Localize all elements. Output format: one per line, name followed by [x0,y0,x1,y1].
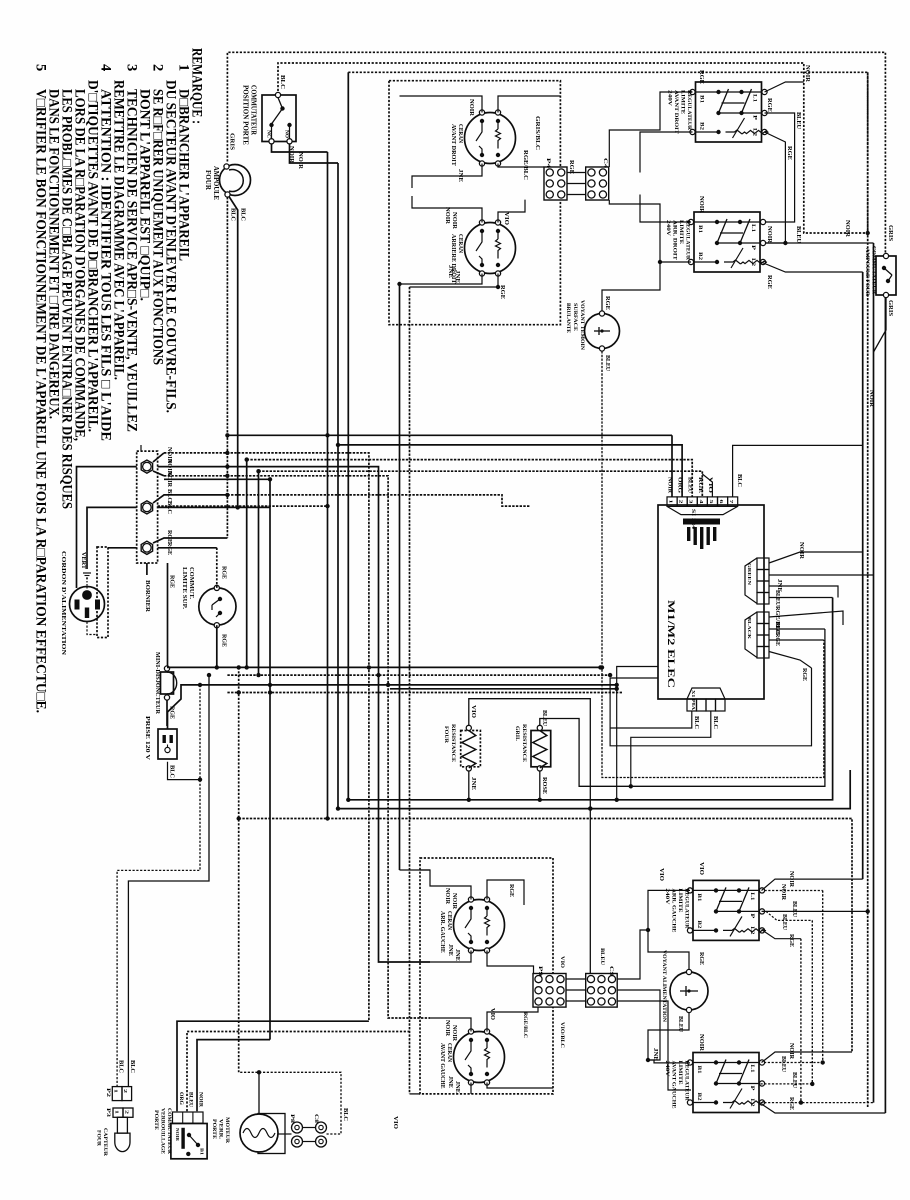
connector C8 [316,1122,327,1133]
wires regulator avant gauche [648,1060,690,1063]
wires regulator avant droit [609,92,692,167]
svg-text:BLC: BLC [169,765,175,778]
svg-text:B1: B1 [697,225,702,234]
svg-text:AMPOULE: AMPOULE [212,166,220,200]
svg-text:RGE: RGE [697,477,703,494]
svg-text:ROSE: ROSE [541,777,547,794]
bus verticals ceran gauche feeds [399,284,401,870]
wires BLC from bornier [153,495,227,503]
svg-text:ARR. GAUCHE: ARR. GAUCHE [671,888,677,932]
svg-text:JNE: JNE [454,270,460,283]
svg-text:RGE: RGE [788,934,794,947]
svg-text:NOIR: NOIR [804,65,810,83]
mini-disjoncteur [164,666,169,671]
svg-text:NO: NO [284,130,290,138]
svg-text:RGE: RGE [698,70,704,84]
svg-text:RESISTANCE: RESISTANCE [521,724,527,762]
svg-text:GRIS/BLC: GRIS/BLC [534,116,540,150]
board top pin row [667,497,677,507]
svg-text:BLEU: BLEU [791,1072,797,1089]
svg-text:BLEU: BLEU [795,226,801,244]
svg-text:LIMITE: LIMITE [677,1061,683,1085]
wire BLC to P2 pin2 [128,675,209,1087]
svg-text:P9: P9 [537,966,543,976]
regulateur limite REGULATEUR LIMITE AVANT DROIT 240V [696,82,762,142]
svg-text:4: 4 [98,64,114,71]
cord enclosure outline [97,547,108,638]
svg-text:NOIR: NOIR [175,1128,180,1142]
svg-text:RGE/BLC: RGE/BLC [522,1012,528,1038]
svg-text:NOIR: NOIR [198,1092,204,1108]
resistance four [461,731,481,767]
svg-text:B1: B1 [696,1066,701,1075]
svg-text:RGE: RGE [166,542,172,555]
wires cord to bornier [77,467,137,588]
ceran CERAN AVANT GAUCHE [454,1032,505,1083]
commutateur verrouillage porte [171,1124,207,1159]
svg-text:NOIR: NOIR [788,871,794,888]
svg-text:VIO: VIO [559,956,565,969]
cooktop right enclosure box [389,81,560,325]
svg-text:L1: L1 [749,1065,754,1074]
right vertical buses [862,272,864,879]
svg-text:RGE: RGE [508,884,514,897]
svg-text:RGE: RGE [788,1097,794,1110]
bus verticals mid-left [246,460,248,668]
svg-text:LIMITE: LIMITE [678,220,684,244]
wires left of board bottom [617,667,658,800]
svg-text:BLC: BLC [230,208,237,221]
svg-text:CERAN: CERAN [457,234,463,254]
wires regulator arriere droit [640,195,691,223]
svg-text:V□RIFIER LE BON FONCTIONNEMENT: V□RIFIER LE BON FONCTIONNEMENT DE L'APPA… [33,89,49,713]
regulateur limite REGULATEUR LIMITE AVANT GAUCHE 240V [693,1053,759,1113]
svg-text:C9: C9 [608,966,614,976]
board bottom connector [687,688,725,699]
svg-text:ARR. DROIT: ARR. DROIT [672,220,678,260]
svg-text:AMPOULE FOUR: AMPOULE FOUR [864,248,870,297]
wires NOIR from door switch [272,144,328,152]
regulateur limite REGULATEUR LIMITE ARR. DROIT 240V [694,212,760,272]
svg-text:GRIL: GRIL [514,726,520,741]
buses y799-820 [348,598,832,800]
svg-text:FOUR: FOUR [204,170,212,191]
junction dots left buses [245,665,249,669]
svg-text:BLACK: BLACK [747,617,752,640]
svg-text:VIO: VIO [503,212,509,226]
svg-text:VIO: VIO [470,705,476,718]
svg-text:P4: P4 [545,158,551,168]
svg-text:COMMUTATEUR: COMMUTATEUR [250,85,258,136]
svg-text:P: P [752,115,757,120]
svg-text:PORTE: PORTE [211,1119,217,1139]
svg-text:COMMUTATEUR: COMMUTATEUR [166,1108,172,1154]
svg-text:AVANT GAUCHE: AVANT GAUCHE [439,1043,445,1089]
wire moteur top to bus [258,1072,260,1113]
prise 120V outlet [158,729,177,759]
commutateur ampoule four [876,256,896,295]
svg-text:P3: P3 [105,1108,111,1117]
wire bornier down to disjoncteur [167,563,169,666]
svg-text:GRIS: GRIS [229,133,236,150]
svg-text:P8: P8 [289,1114,295,1123]
ceran gauche wires [420,870,471,900]
svg-text:2: 2 [150,64,166,71]
resistance gril [531,731,551,767]
svg-text:VIO: VIO [698,862,704,875]
svg-text:L1: L1 [752,94,757,103]
svg-text:VERT: VERT [80,552,86,569]
wire bornier down-left steps [146,563,148,575]
connector C4 [586,167,609,200]
svg-text:L2: L2 [749,926,754,935]
svg-text:VIO: VIO [392,1116,398,1129]
svg-text:C8: C8 [313,1114,319,1123]
svg-text:L1: L1 [750,224,755,233]
svg-text:1: 1 [176,64,192,71]
bus vertical x238 [238,667,240,1072]
svg-text:P: P [750,245,755,250]
svg-text:BLEU: BLEU [599,948,605,965]
svg-text:M1/M2 ELEC: M1/M2 ELEC [665,600,675,688]
wire ampoule four switch down [874,298,887,352]
svg-text:BLEU: BLEU [791,901,797,918]
bottom buses y667-685 [167,666,602,668]
svg-text:ARR. GAUCHE: ARR. GAUCHE [439,911,445,953]
svg-text:RGE: RGE [801,668,807,681]
svg-text:CERAN: CERAN [446,911,452,931]
svg-text:NOIR: NOIR [468,99,474,117]
svg-text:RGE: RGE [786,146,792,160]
svg-text:BLEU: BLEU [780,1056,786,1073]
svg-text:BLC: BLC [712,716,718,729]
svg-text:5: 5 [33,64,49,71]
cordon d'alimentation plug [70,587,105,622]
svg-text:JNE: JNE [470,777,476,790]
svg-text:AVANT GAUCHE: AVANT GAUCHE [671,1061,677,1109]
resistance wiring [390,688,617,690]
svg-text:NOIR: NOIR [780,884,786,901]
svg-text:P: P [749,1086,754,1091]
svg-text:RGE/BLC: RGE/BLC [522,150,528,180]
voyant temoin surface brulante [585,314,620,349]
svg-text:VIO: VIO [658,868,664,881]
svg-text:CAPTEUR: CAPTEUR [102,1128,108,1157]
svg-text:MOTEUR: MOTEUR [224,1117,230,1144]
svg-text:SURFACE: SURFACE [572,303,578,331]
svg-text:AVANT DROIT: AVANT DROIT [450,124,456,166]
svg-text:BLEU: BLEU [604,355,610,372]
svg-text:FOUR: FOUR [96,1130,102,1147]
svg-text:PRISE 120 V: PRISE 120 V [144,716,150,761]
wire top third [348,72,867,233]
svg-text:FOUR: FOUR [443,726,449,744]
svg-text:VOYANT TEMOIN: VOYANT TEMOIN [579,300,585,350]
svg-text:BLEU: BLEU [188,1092,194,1107]
svg-text:GRIS: GRIS [887,300,893,317]
voyant alim wires [648,930,689,969]
svg-text:JNE: JNE [454,949,460,961]
svg-text:NOIR: NOIR [451,212,457,230]
moteur verrouillage porte [258,1114,285,1154]
svg-text:BLEU: BLEU [687,477,693,493]
ceran CERAN AVANT DROIT [465,113,516,164]
svg-text:L1: L1 [749,892,754,901]
svg-text:NOIR: NOIR [844,220,850,238]
connector P2 [112,1087,122,1101]
svg-text:CORDON D'ALIMENTATION: CORDON D'ALIMENTATION [60,551,66,656]
wire VIO bus corner to gauche box [410,1093,421,1095]
svg-text:L2: L2 [752,128,757,137]
svg-text:RGE: RGE [169,575,175,588]
wire BLC door-switch to right bus [278,63,868,233]
wire prise BLC [168,762,201,780]
connector C9 [586,974,618,1008]
svg-text:MINI-DISJONCTEUR: MINI-DISJONCTEUR [154,652,160,715]
svg-text:JNE: JNE [457,169,463,182]
svg-text:BLEU: BLEU [781,914,787,931]
svg-text:P2: P2 [105,1088,111,1097]
bus verticals middle cluster [327,152,329,819]
svg-text:L2: L2 [750,258,755,267]
svg-text:NOIR: NOIR [451,1025,457,1042]
svg-text:B1: B1 [699,95,704,104]
svg-text:LIMITE: LIMITE [680,90,686,114]
cooktop left enclosure box [420,858,553,1094]
ceran CERAN ARR. GAUCHE [454,900,505,951]
4 wires to control board [227,434,672,436]
svg-text:JNE: JNE [447,1076,453,1088]
svg-text:BLC: BLC [118,1060,124,1073]
svg-text:VIO/BLC: VIO/BLC [559,1022,565,1048]
svg-text:BLC: BLC [342,1108,348,1121]
svg-text:PORTE: PORTE [153,1110,159,1130]
svg-text:BLC: BLC [129,1060,135,1073]
svg-text:CERAN: CERAN [446,1043,452,1063]
svg-text:NOIR: NOIR [798,542,804,560]
svg-text:NOIR: NOIR [451,893,457,910]
svg-text:NOIR: NOIR [868,390,874,408]
connector P9 [533,974,566,1008]
svg-text:P: P [749,913,754,918]
svg-text:JNE: JNE [652,1048,658,1061]
svg-text:ORG: ORG [178,1092,184,1106]
svg-text:NOIR: NOIR [297,152,304,169]
svg-text:RGE: RGE [221,566,227,579]
svg-text:JNE: JNE [454,1081,460,1093]
commutateur position porte box [262,95,296,142]
svg-text:AVANT DROIT: AVANT DROIT [673,90,679,134]
control board M1/M2 ELEC [658,505,764,699]
bornier terminal block [137,451,158,563]
svg-text:REGULATEUR: REGULATEUR [686,90,692,131]
board right connector 2 [757,612,769,624]
bus verticals mid-right cluster (door lock feeds) [164,453,369,1021]
bus y692.5 [227,692,623,694]
svg-text:BORNIER: BORNIER [144,580,151,612]
svg-text:COMMUTATEUR: COMMUTATEUR [871,246,877,295]
svg-text:3: 3 [124,64,140,71]
board bottom wires BLC [610,711,692,728]
svg-text:B2: B2 [699,122,704,131]
svg-text:B2: B2 [697,252,702,261]
svg-text:RGE: RGE [604,296,610,310]
connector P8 [292,1122,303,1133]
wire disjoncteur down to prise [166,700,168,726]
svg-text:JNE: JNE [447,944,453,956]
wires regulator arr gauche [648,890,690,930]
commut limite sup [199,588,236,625]
svg-text:NOIR: NOIR [444,207,450,225]
ceran droit wires [400,96,483,113]
svg-text:X1 P8A: X1 P8A [691,690,696,711]
svg-text:VERROUILLAGE: VERROUILLAGE [160,1108,166,1154]
svg-text:REGULATEUR: REGULATEUR [684,888,690,929]
wire GRIS top border loop [227,52,885,256]
svg-text:B1: B1 [696,893,701,902]
svg-text:RGE: RGE [774,633,780,646]
svg-text:C4: C4 [602,158,608,168]
svg-text:BRULANTE: BRULANTE [565,303,571,333]
svg-text:REGULATEUR: REGULATEUR [685,220,691,261]
svg-text:BLC: BLC [279,75,286,89]
svg-text:LIMITE SUP.: LIMITE SUP. [181,567,187,610]
svg-text:RGE: RGE [499,285,505,299]
wires limite sup [216,548,218,588]
svg-text:RGE: RGE [698,952,704,965]
svg-text:NOIR: NOIR [698,1034,704,1052]
svg-text:GREEN: GREEN [747,563,752,586]
svg-text:REGULATEUR: REGULATEUR [684,1061,690,1102]
svg-text:POSITION PORTE: POSITION PORTE [242,85,250,145]
svg-text:RGE: RGE [766,98,772,112]
svg-text:GRIS: GRIS [887,225,893,242]
svg-text:RGE: RGE [221,634,227,647]
svg-text:JNE: JNE [447,265,453,278]
pin5 stub and pin7 BLC [702,474,712,497]
connector P4 [544,167,567,200]
svg-text:VIO: VIO [489,1008,495,1021]
svg-text:L2: L2 [749,1099,754,1108]
ceran CERAN ARRIERE DROIT [465,223,516,274]
svg-text:B2: B2 [696,920,701,929]
svg-text:VOYANT ALIMENTATION: VOYANT ALIMENTATION [661,950,667,1022]
svg-text:NOIR: NOIR [698,196,704,214]
svg-text:B1: B1 [200,1148,205,1155]
svg-text:BLEU: BLEU [774,590,780,607]
svg-text:RESISTANCE: RESISTANCE [450,724,456,762]
voyant alimentation [670,972,708,1010]
wires NOIR fan from bornier [153,453,164,462]
svg-text:COMMUT.: COMMUT. [188,567,194,600]
svg-text:CERAN: CERAN [457,124,463,144]
board right connector 1 [757,558,769,570]
svg-text:NOIR: NOIR [788,1043,794,1060]
wires RGE from bornier [153,538,227,543]
svg-text:BLC: BLC [736,474,742,487]
svg-text:NOIR: NOIR [444,1020,450,1037]
bus BLC mid [227,495,530,506]
svg-text:BLC: BLC [240,208,247,221]
svg-text:BLC: BLC [693,716,699,729]
svg-text:RGE: RGE [766,275,772,289]
svg-text:ORG: ORG [677,477,683,494]
svg-text:BLEU: BLEU [795,112,801,130]
capteur four [113,1108,123,1117]
wires C9 to regulators [618,930,648,979]
svg-text:LIMITE: LIMITE [677,888,683,912]
svg-text:NOIR: NOIR [667,477,673,493]
svg-text:NOIR: NOIR [444,888,450,905]
wire BLC prise to P2 pin1 [117,685,200,1087]
wires verrouillage stairs [177,1021,369,1111]
regulateur limite REGULATEUR LIMITE ARR. GAUCHE 240V [693,880,759,940]
ampoule four lamp [220,165,251,196]
svg-text:NC: NC [266,130,272,138]
svg-text:B2: B2 [696,1093,701,1102]
svg-text:NOIR: NOIR [766,226,772,244]
svg-text:VERR.: VERR. [218,1119,224,1140]
wire lamp to BLC bus [226,197,228,538]
moteur wires [278,1133,292,1135]
svg-text:BLC: BLC [166,501,172,514]
